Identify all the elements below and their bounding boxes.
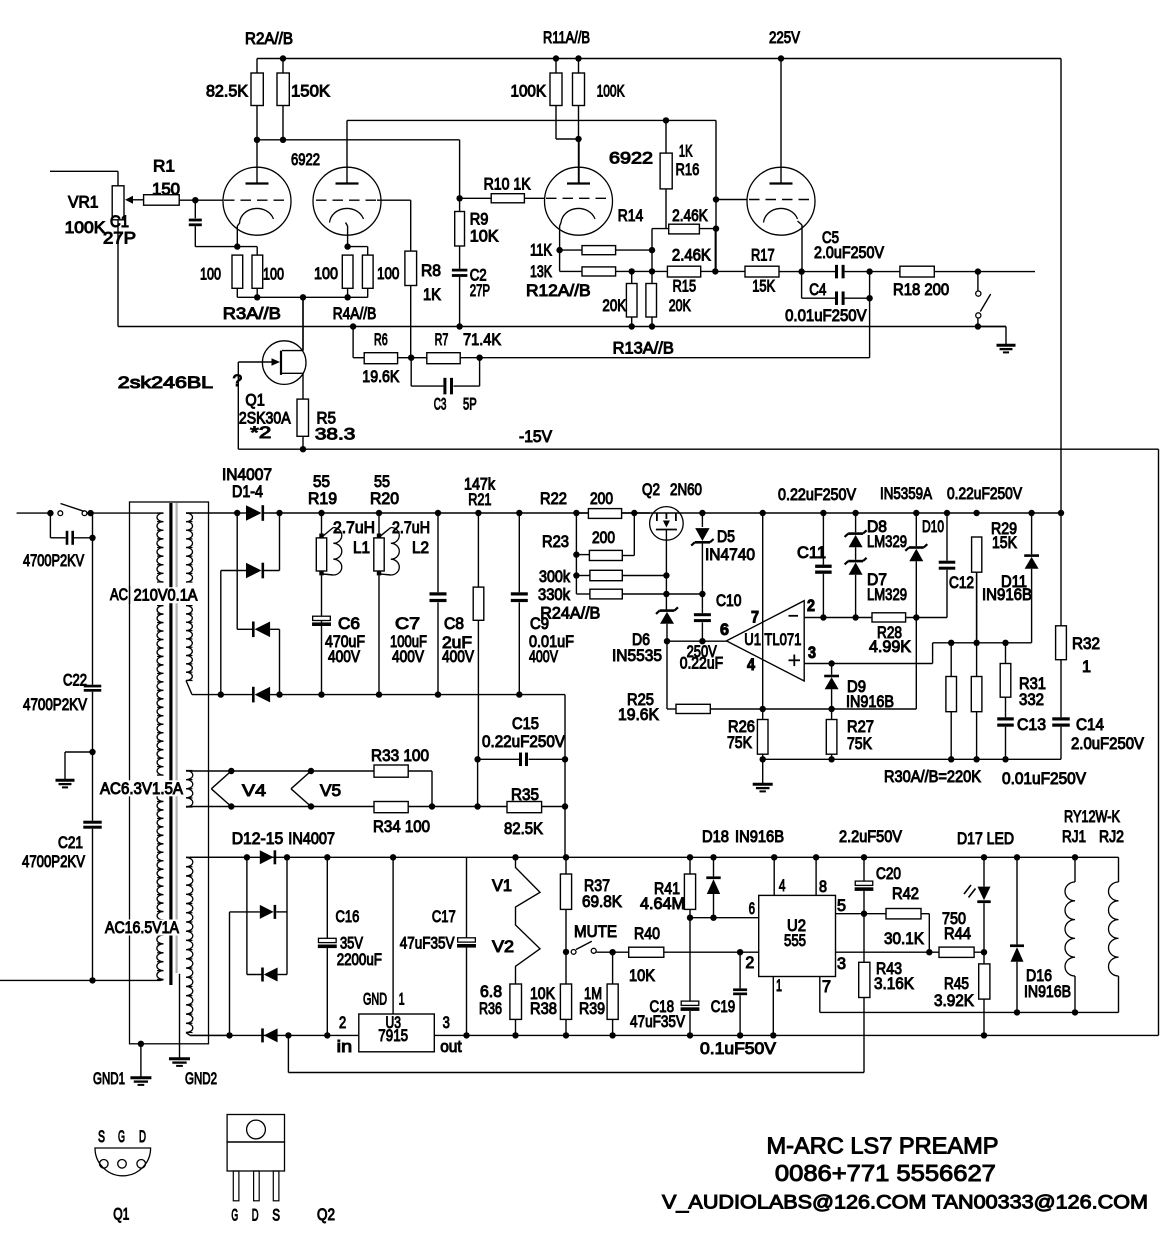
svg-text:R16: R16 <box>676 161 700 179</box>
svg-text:3: 3 <box>837 955 846 973</box>
svg-text:Q2: Q2 <box>317 1206 335 1224</box>
svg-text:R9: R9 <box>470 211 489 229</box>
svg-text:C9: C9 <box>530 615 549 633</box>
svg-text:IN916B: IN916B <box>846 693 894 711</box>
svg-text:2200uF: 2200uF <box>337 951 382 969</box>
svg-text:R32: R32 <box>1072 635 1100 653</box>
svg-text:V_AUDIOLABS@126.COM TAN00333@: V_AUDIOLABS@126.COM TAN00333@126.COM <box>662 1193 1148 1214</box>
svg-text:4: 4 <box>779 877 786 895</box>
svg-text:4: 4 <box>747 656 755 674</box>
svg-text:7: 7 <box>751 609 759 627</box>
svg-text:0.22uF250V: 0.22uF250V <box>778 486 856 504</box>
svg-text:330k: 330k <box>538 586 571 604</box>
svg-text:2: 2 <box>339 1014 346 1032</box>
svg-text:38.3: 38.3 <box>315 426 355 444</box>
svg-text:V2: V2 <box>492 938 514 956</box>
svg-text:0.22uF250V: 0.22uF250V <box>482 733 565 751</box>
svg-text:2.0uF250V: 2.0uF250V <box>1071 735 1144 753</box>
svg-text:in: in <box>337 1038 352 1056</box>
svg-text:RY12W-K: RY12W-K <box>1064 808 1120 826</box>
svg-text:332: 332 <box>1019 691 1044 709</box>
svg-text:0.1uF50V: 0.1uF50V <box>700 1040 776 1058</box>
svg-text:5: 5 <box>837 897 846 915</box>
svg-text:R42: R42 <box>892 885 919 903</box>
svg-text:555: 555 <box>784 932 806 950</box>
svg-text:2.7uH: 2.7uH <box>392 519 430 537</box>
svg-text:200: 200 <box>592 529 615 547</box>
svg-text:R35: R35 <box>511 786 539 804</box>
svg-text:R23: R23 <box>542 533 569 551</box>
svg-text:13K: 13K <box>530 263 552 281</box>
svg-text:Q1: Q1 <box>245 392 264 410</box>
svg-text:R2A//B: R2A//B <box>245 30 293 48</box>
svg-text:4700P2KV: 4700P2KV <box>23 552 84 570</box>
svg-text:400V: 400V <box>442 648 474 666</box>
svg-text:R38: R38 <box>530 1000 557 1018</box>
svg-text:IN916B: IN916B <box>982 586 1032 604</box>
svg-text:*2: *2 <box>250 424 271 442</box>
svg-text:GND1: GND1 <box>93 1070 125 1088</box>
svg-text:35V: 35V <box>340 934 363 952</box>
svg-text:R14: R14 <box>618 207 644 225</box>
svg-text:R20: R20 <box>370 490 399 508</box>
svg-text:3: 3 <box>443 1014 450 1032</box>
svg-text:30.1K: 30.1K <box>884 930 924 948</box>
svg-text:0.01uF250V: 0.01uF250V <box>785 307 867 325</box>
svg-text:AC: AC <box>110 586 128 604</box>
svg-text:2.2uF50V: 2.2uF50V <box>839 828 902 846</box>
svg-text:R44: R44 <box>944 925 971 943</box>
svg-text:C15: C15 <box>512 715 539 733</box>
svg-text:LM329: LM329 <box>867 586 907 604</box>
svg-text:7915: 7915 <box>378 1027 408 1045</box>
svg-text:IN4740: IN4740 <box>705 546 755 564</box>
svg-text:3.92K: 3.92K <box>934 992 974 1010</box>
svg-text:C17: C17 <box>432 908 456 926</box>
svg-text:MUTE: MUTE <box>574 923 617 941</box>
svg-text:LM329: LM329 <box>867 533 907 551</box>
svg-text:100K: 100K <box>597 83 625 101</box>
svg-text:0.22uF: 0.22uF <box>680 654 723 672</box>
svg-text:U1 TL071: U1 TL071 <box>744 631 801 649</box>
svg-text:D10: D10 <box>922 518 944 536</box>
svg-text:55: 55 <box>374 473 390 491</box>
svg-text:200: 200 <box>590 490 613 508</box>
svg-text:S: S <box>272 1206 280 1224</box>
svg-text:225V: 225V <box>769 29 800 47</box>
svg-text:C14: C14 <box>1076 716 1104 734</box>
svg-text:R30A//B=220K: R30A//B=220K <box>884 768 981 786</box>
svg-text:out: out <box>440 1038 462 1056</box>
svg-text:IN4007: IN4007 <box>222 466 272 484</box>
svg-text:C10: C10 <box>716 592 742 610</box>
svg-text:10K: 10K <box>629 967 655 985</box>
svg-text:L2: L2 <box>412 539 429 557</box>
svg-text:19.6K: 19.6K <box>618 706 659 724</box>
svg-text:6922: 6922 <box>291 151 320 169</box>
svg-text:100: 100 <box>200 266 221 284</box>
svg-text:20K: 20K <box>669 297 691 315</box>
svg-text:G: G <box>118 1128 125 1146</box>
svg-text:RJ1: RJ1 <box>1062 828 1086 846</box>
svg-text:R33 100: R33 100 <box>371 747 429 765</box>
svg-text:2.7uH: 2.7uH <box>333 519 375 537</box>
svg-text:75K: 75K <box>727 734 752 752</box>
svg-text:R8: R8 <box>421 262 441 280</box>
svg-text:15K: 15K <box>992 534 1017 552</box>
svg-text:D: D <box>139 1128 146 1146</box>
svg-text:0.01uF250V: 0.01uF250V <box>1002 770 1086 788</box>
svg-text:V5: V5 <box>320 782 341 800</box>
svg-text:100: 100 <box>314 265 338 283</box>
svg-text:300k: 300k <box>539 568 571 586</box>
svg-text:R21: R21 <box>468 491 491 509</box>
svg-text:400V: 400V <box>529 648 558 666</box>
svg-text:D: D <box>252 1206 259 1224</box>
svg-text:15K: 15K <box>752 278 775 296</box>
svg-text:100: 100 <box>377 265 399 283</box>
svg-text:C19: C19 <box>711 998 736 1016</box>
svg-text:C3: C3 <box>434 396 447 414</box>
svg-text:400V: 400V <box>392 648 424 666</box>
svg-text:IN5535: IN5535 <box>612 647 662 665</box>
svg-text:19.6K: 19.6K <box>362 368 399 386</box>
svg-text:AC6.3V1.5A: AC6.3V1.5A <box>100 780 183 798</box>
svg-text:1K: 1K <box>423 286 441 304</box>
svg-text:71.4K: 71.4K <box>463 331 501 349</box>
svg-text:GND: GND <box>363 990 387 1008</box>
svg-text:C13: C13 <box>1017 716 1046 734</box>
svg-text:210V0.1A: 210V0.1A <box>134 587 198 605</box>
svg-text:R22: R22 <box>540 490 567 508</box>
svg-text:G: G <box>231 1206 238 1224</box>
svg-text:C8: C8 <box>444 615 464 633</box>
svg-text:R17: R17 <box>751 246 775 264</box>
svg-text:V1: V1 <box>492 877 512 895</box>
svg-text:8: 8 <box>819 878 827 896</box>
svg-text:IN5359A: IN5359A <box>880 485 932 503</box>
svg-text:4.99K: 4.99K <box>869 638 911 656</box>
svg-text:3.16K: 3.16K <box>874 975 914 993</box>
svg-text:C16: C16 <box>336 908 360 926</box>
svg-text:?: ? <box>233 372 243 390</box>
svg-text:D18: D18 <box>702 828 729 846</box>
svg-text:10K: 10K <box>470 228 499 246</box>
svg-text:6: 6 <box>720 621 729 639</box>
svg-text:R6: R6 <box>374 331 388 349</box>
svg-text:R11A//B: R11A//B <box>543 29 590 47</box>
svg-text:100K: 100K <box>511 83 547 101</box>
svg-text:R39: R39 <box>579 1000 605 1018</box>
svg-text:C20: C20 <box>876 865 901 883</box>
svg-text:5P: 5P <box>463 396 477 414</box>
svg-text:47uF35V: 47uF35V <box>400 934 455 952</box>
svg-text:2N60: 2N60 <box>670 481 702 499</box>
svg-text:6.8: 6.8 <box>480 983 502 1001</box>
svg-text:R18 200: R18 200 <box>893 281 949 299</box>
svg-text:C22: C22 <box>63 672 87 690</box>
svg-text:RJ2: RJ2 <box>1099 828 1124 846</box>
svg-text:3: 3 <box>808 644 816 662</box>
svg-text:C1: C1 <box>110 213 129 231</box>
svg-text:27P: 27P <box>103 230 136 248</box>
svg-text:100: 100 <box>263 266 284 284</box>
svg-text:4700P2KV: 4700P2KV <box>23 696 87 714</box>
svg-text:D5: D5 <box>717 528 735 546</box>
svg-text:2.46K: 2.46K <box>672 246 711 264</box>
svg-text:R15: R15 <box>673 278 697 296</box>
svg-text:D1-4: D1-4 <box>232 483 263 501</box>
svg-text:GND2: GND2 <box>185 1070 217 1088</box>
svg-text:M-ARC LS7 PREAMP: M-ARC LS7 PREAMP <box>767 1133 999 1159</box>
svg-text:C12: C12 <box>949 574 974 592</box>
svg-text:2sk246BL: 2sk246BL <box>118 374 213 392</box>
svg-text:82.5K: 82.5K <box>504 820 543 838</box>
svg-text:R7: R7 <box>435 331 449 349</box>
svg-text:1: 1 <box>399 990 405 1008</box>
svg-text:R13A//B: R13A//B <box>613 340 674 358</box>
svg-text:R36: R36 <box>479 1000 502 1018</box>
svg-text:55: 55 <box>313 473 330 491</box>
svg-text:82.5K: 82.5K <box>206 83 248 101</box>
svg-text:2: 2 <box>807 597 815 615</box>
svg-text:C4: C4 <box>809 281 826 299</box>
svg-text:47uF35V: 47uF35V <box>630 1013 685 1031</box>
svg-text:6: 6 <box>749 900 755 918</box>
svg-text:C21: C21 <box>58 834 83 852</box>
svg-text:R45: R45 <box>944 975 969 993</box>
svg-text:69.8K: 69.8K <box>582 893 622 911</box>
svg-text:Q1: Q1 <box>113 1206 129 1224</box>
svg-text:1K: 1K <box>679 143 693 161</box>
svg-text:0086+771 5556627: 0086+771 5556627 <box>775 1160 996 1186</box>
svg-text:R19: R19 <box>308 490 337 508</box>
svg-text:IN916B: IN916B <box>735 828 784 846</box>
svg-text:R10 1K: R10 1K <box>484 175 531 193</box>
svg-text:D17 LED: D17 LED <box>957 830 1014 848</box>
svg-text:IN916B: IN916B <box>1024 983 1071 1001</box>
svg-text:4700P2KV: 4700P2KV <box>22 853 85 871</box>
svg-text:R4A//B: R4A//B <box>333 305 377 323</box>
svg-text:2.46K: 2.46K <box>672 207 708 225</box>
svg-text:VR1: VR1 <box>68 194 99 212</box>
svg-text:R40: R40 <box>634 925 660 943</box>
svg-text:R3A//B: R3A//B <box>223 305 281 323</box>
svg-text:C7: C7 <box>395 615 420 633</box>
svg-text:150: 150 <box>152 181 180 199</box>
svg-text:R27: R27 <box>847 718 874 736</box>
svg-text:2.0uF250V: 2.0uF250V <box>814 244 884 262</box>
svg-text:100K: 100K <box>65 219 106 237</box>
svg-text:2: 2 <box>745 954 754 972</box>
svg-text:L1: L1 <box>353 539 370 557</box>
svg-text:S: S <box>98 1128 105 1146</box>
svg-text:11K: 11K <box>530 242 552 260</box>
svg-text:0.22uF250V: 0.22uF250V <box>947 485 1022 503</box>
svg-text:V4: V4 <box>242 782 266 800</box>
svg-text:27P: 27P <box>470 282 490 300</box>
svg-text:C6: C6 <box>338 615 360 633</box>
svg-text:20K: 20K <box>602 297 626 315</box>
svg-text:-15V: -15V <box>519 428 552 446</box>
svg-text:R12A//B: R12A//B <box>526 282 591 300</box>
svg-text:1: 1 <box>776 977 782 995</box>
svg-text:R24A//B: R24A//B <box>540 605 600 623</box>
svg-text:7: 7 <box>822 978 831 996</box>
svg-text:R1: R1 <box>153 158 175 176</box>
svg-text:IN4007: IN4007 <box>288 830 335 848</box>
svg-text:D12-15: D12-15 <box>232 830 284 848</box>
svg-text:R34 100: R34 100 <box>373 818 430 836</box>
svg-text:75K: 75K <box>847 735 872 753</box>
svg-text:Q2: Q2 <box>642 481 660 499</box>
svg-text:150K: 150K <box>291 83 330 101</box>
svg-text:4.64M: 4.64M <box>640 895 685 913</box>
svg-text:6922: 6922 <box>609 150 653 168</box>
svg-text:C11: C11 <box>797 544 826 562</box>
svg-text:AC16.5V1A: AC16.5V1A <box>105 919 179 937</box>
svg-text:1: 1 <box>1082 658 1091 676</box>
svg-text:400V: 400V <box>328 648 360 666</box>
